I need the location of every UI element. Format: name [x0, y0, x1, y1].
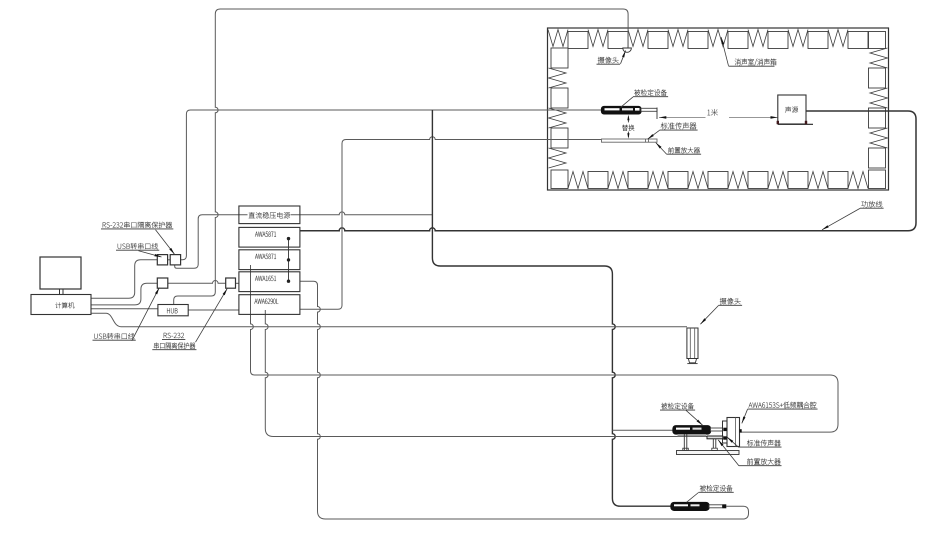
wire computer to lower camera (y=326.7) [91, 313, 687, 327]
label RS-232 串口隔离保护器 (bottom) [164, 333, 184, 338]
label AWA6153S+低频耦合腔 [749, 402, 817, 409]
label 前置放大器 (middle) [747, 458, 780, 465]
wire computer to USB adapter A [91, 260, 157, 299]
computer 计算机 [31, 295, 91, 315]
wire trunk x=432/612 (thick) [432, 110, 671, 506]
label USB转串口线 (bottom) [94, 333, 134, 339]
label 被检定设备 (bottom) [700, 485, 733, 492]
label 被检定设备 (middle) [661, 403, 694, 410]
wire trunk branch to middle device (y=430) [612, 429, 673, 431]
chamber camera dome 摄像头 [623, 48, 632, 52]
label 功放线 [861, 201, 882, 208]
DUT2 stand [683, 434, 685, 451]
label 消声室/消声箱 [735, 59, 776, 67]
wire AWA6290L to chamber mic (y=139.5) [300, 137, 602, 310]
wire power supply line (y=215) [175, 215, 248, 269]
wire computer to HUB [91, 308, 158, 310]
wire HUB to chamber camera (top loop) [174, 9, 628, 305]
label 标准传声器 (chamber) [661, 122, 697, 129]
device under test 被检定设备 (chamber) [602, 107, 642, 114]
computer monitor [40, 257, 81, 289]
device under test 被检定设备 (bottom) [671, 503, 709, 511]
label 前置放大器 (chamber) [668, 147, 700, 153]
power amplifier AWA5871 U1 [239, 227, 300, 247]
RS-232 isolator B [170, 255, 180, 265]
standard microphone 标准传声器 (chamber) [602, 139, 658, 142]
wire AWA5871#2 to coupler loop (y=375/432) [251, 265, 839, 432]
power amplifier AWA5871 U2 [239, 250, 300, 270]
label 摄像头 (lower) [720, 298, 741, 304]
wire adapter A to B [168, 259, 171, 261]
label 被检定设备 (chamber) [634, 89, 667, 96]
wire AWA1651 to bottom device loop (y=519) [300, 281, 749, 519]
label USB转串口线 (top) [118, 243, 158, 249]
USB-serial adapter A [157, 255, 167, 265]
label RS-232串口隔离保护器 (top) [103, 222, 172, 228]
wire 功放线 AWA5871 to 声源 (thick) [300, 111, 916, 231]
device under test 被检定设备 (middle) [673, 426, 711, 434]
dimension 1米 [659, 116, 706, 118]
lower camera 摄像头2 [687, 328, 698, 359]
wire RS-232 to chamber device (y=110) [181, 110, 602, 260]
wire adapter D to AWA1651 [236, 282, 239, 284]
HUB box [158, 305, 188, 316]
label 标准传声器 (middle) [747, 440, 781, 447]
label 摄像头 (chamber) [598, 57, 619, 63]
替换 replace arrows [627, 117, 629, 123]
DC power supply 直流稳压电源 [239, 206, 300, 224]
wire computer to USB adapter C [91, 283, 157, 305]
wire AWA6290L to standard mic (y=436.5) [265, 310, 707, 437]
wire adapter C to D (hop x=215) [168, 281, 226, 284]
sound source 声源 [778, 95, 806, 124]
signal generator AWA1651 [239, 272, 300, 292]
wire HUB to AWA6290L [188, 309, 239, 311]
daisy-chain bus [288, 239, 290, 282]
anechoic chamber wall 消声室/消声箱 [548, 28, 889, 190]
standard mic holder + preamp [707, 436, 723, 439]
monitor stand [59, 289, 61, 295]
coupler AWA6153S+低频耦合腔 [723, 421, 728, 443]
RS-232 isolator D [226, 278, 236, 288]
USB-serial adapter C [157, 278, 168, 288]
measuring amplifier AWA6290L [239, 295, 300, 315]
